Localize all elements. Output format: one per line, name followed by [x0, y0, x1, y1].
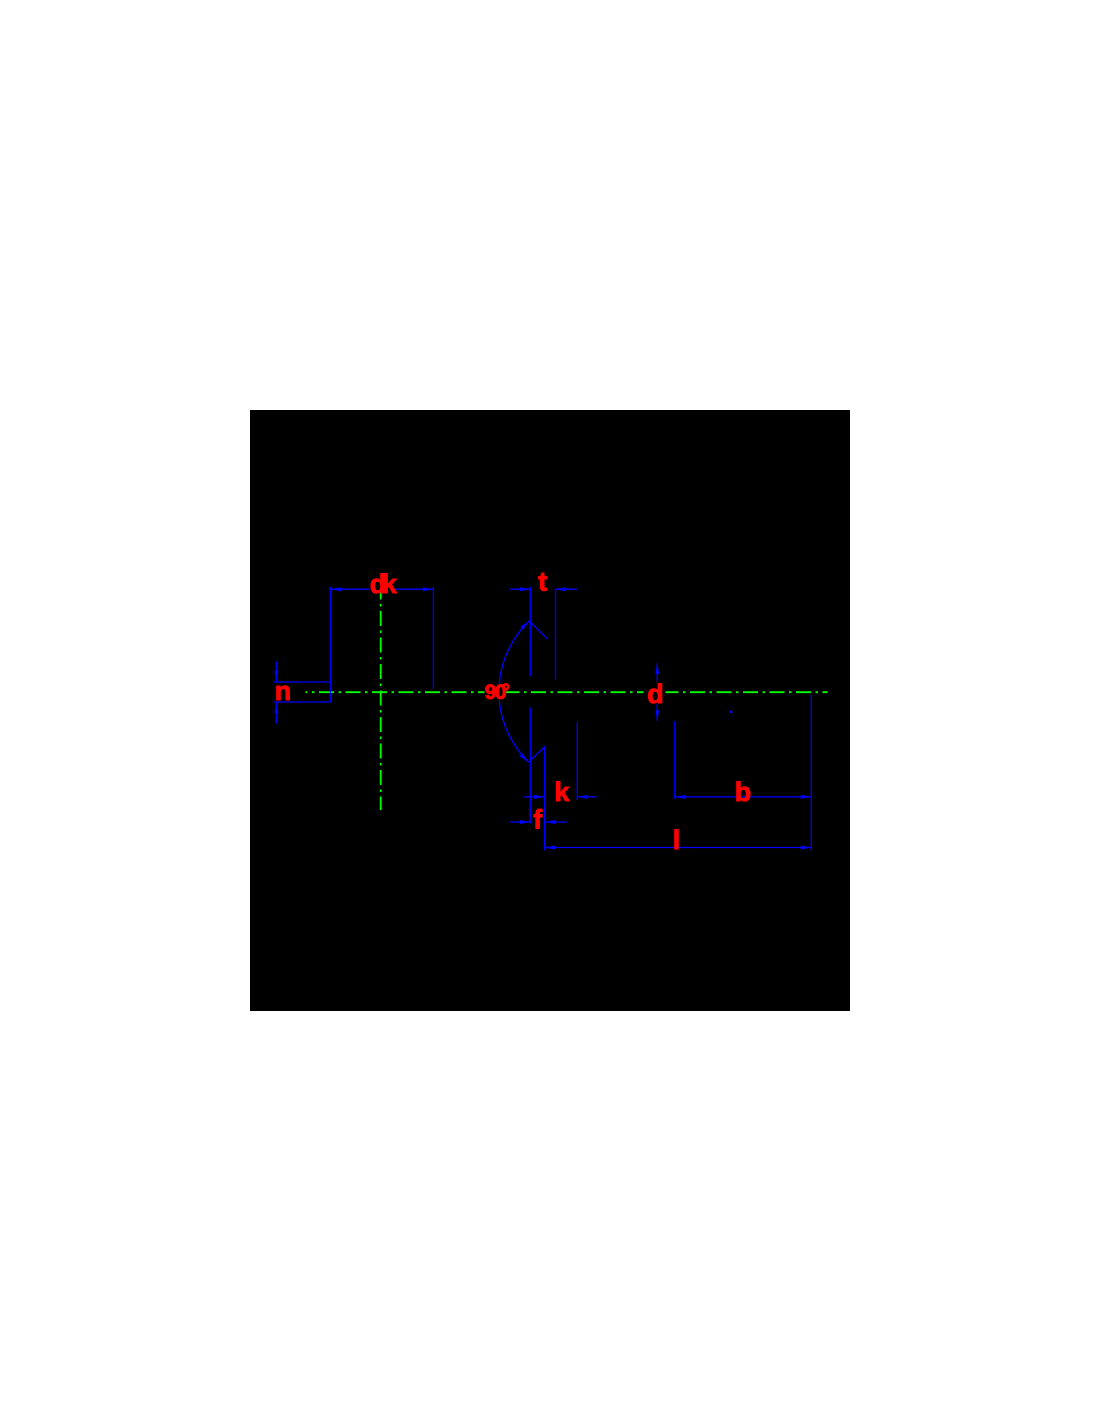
dimension tail k right	[577, 796, 597, 798]
arrowhead f right	[545, 820, 556, 824]
text mask dk	[369, 571, 396, 592]
arrowhead dk left	[331, 587, 342, 591]
extension line n upper	[274, 681, 330, 683]
extension line f left	[529, 707, 531, 823]
arrowhead arc top	[520, 621, 529, 630]
svg-text:k: k	[555, 777, 571, 807]
dimension line b	[675, 796, 812, 798]
arrowhead d top	[655, 663, 659, 674]
dimension tail k left	[524, 796, 545, 798]
svg-text:t: t	[538, 566, 547, 596]
dimension line n lower	[275, 703, 277, 724]
svg-text:°: °	[502, 680, 510, 703]
extension line n lower	[274, 701, 330, 703]
arrowhead k left	[534, 795, 545, 799]
dimension tail t left	[510, 588, 530, 590]
arrowhead b left	[675, 795, 686, 799]
dimension line dk	[331, 588, 434, 590]
arrowhead dk right	[423, 587, 434, 591]
dimension tail f left	[510, 821, 530, 823]
horizontal centerline (screw axis, green dash-dot)	[306, 691, 828, 693]
dimension line d (vertical, shank diameter)	[656, 663, 658, 721]
drawing panel background (black CAD canvas)	[250, 410, 850, 1011]
arrowhead l left	[545, 846, 556, 850]
extension line dk right	[432, 587, 434, 689]
arrowhead n lower	[274, 703, 278, 714]
angular dimension arc 90 degrees	[499, 621, 529, 762]
svg-text:l: l	[673, 825, 681, 855]
arrowhead d bottom	[655, 710, 659, 721]
dimension tail f right	[545, 821, 567, 823]
arrowhead arc bottom	[520, 753, 529, 762]
shared extension line right (b/l, screw tip)	[810, 695, 812, 851]
stray dot artifact	[730, 711, 733, 714]
arrowhead t left	[520, 587, 531, 591]
arrowhead f left	[520, 820, 531, 824]
arrowhead k right	[577, 795, 588, 799]
vertical centerline (head front view, green dash-dot)	[380, 592, 382, 811]
extension line k right	[576, 722, 578, 800]
text mask 90 degrees	[485, 684, 506, 701]
text mask d	[644, 681, 666, 704]
extension line t right	[555, 589, 557, 679]
dimension line n upper	[275, 661, 277, 682]
svg-text:d: d	[647, 679, 664, 709]
angle extension ray bottom	[529, 746, 546, 762]
arrowhead b right	[801, 795, 812, 799]
svg-text:f: f	[533, 804, 543, 834]
dimension tail t right	[556, 588, 577, 590]
extension line b left	[674, 721, 676, 799]
svg-text:n: n	[275, 676, 292, 706]
angle extension ray top	[529, 621, 547, 639]
arrowhead t right	[556, 587, 567, 591]
extension line t left	[529, 587, 531, 676]
arrowhead l right	[801, 846, 812, 850]
shared extension line (f right / k left / l left)	[544, 747, 546, 851]
svg-text:b: b	[735, 777, 752, 807]
arrowhead n upper	[274, 671, 278, 682]
extension line dk left	[330, 587, 332, 703]
dimension line l	[545, 847, 812, 849]
